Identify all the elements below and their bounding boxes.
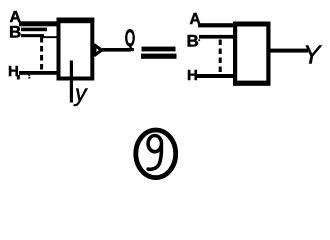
wire H to right gate [196, 74, 233, 78]
wire Y output (right) [270, 49, 308, 53]
left gate thick top edge [57, 18, 95, 24]
wire H to left gate [19, 71, 59, 75]
inverter bubble on left gate output [95, 45, 102, 55]
right gate thick bottom edge [233, 81, 271, 86]
wire Q output [102, 48, 131, 52]
figure number 9 [148, 136, 161, 152]
svg-text:Y: Y [303, 40, 322, 70]
wire B stub to dashed strobe line [21, 34, 44, 37]
dashed strobe line (right) [219, 40, 222, 76]
wire A to left gate [19, 21, 59, 26]
svg-text:y: y [73, 80, 88, 106]
wire B to left gate [21, 28, 47, 32]
figure number circle [136, 130, 176, 178]
dashed strobe line (left) [40, 37, 43, 72]
equals sign [142, 47, 176, 52]
scan speck below H [17, 75, 20, 80]
scan speck near right B [198, 39, 200, 41]
wire Y pin down from left gate [70, 61, 73, 103]
wire A to right gate [198, 23, 233, 27]
left gate body U1 [59, 20, 93, 79]
scan specks under H wire [28, 75, 30, 76]
right gate body U2 [235, 24, 268, 84]
svg-text:B: B [187, 32, 199, 51]
svg-text:B: B [9, 23, 21, 42]
wire B to right gate [199, 35, 233, 39]
svg-text:Q: Q [125, 25, 136, 52]
thin wire continuation to left gate [43, 36, 59, 38]
right gate thick top edge [233, 22, 271, 27]
